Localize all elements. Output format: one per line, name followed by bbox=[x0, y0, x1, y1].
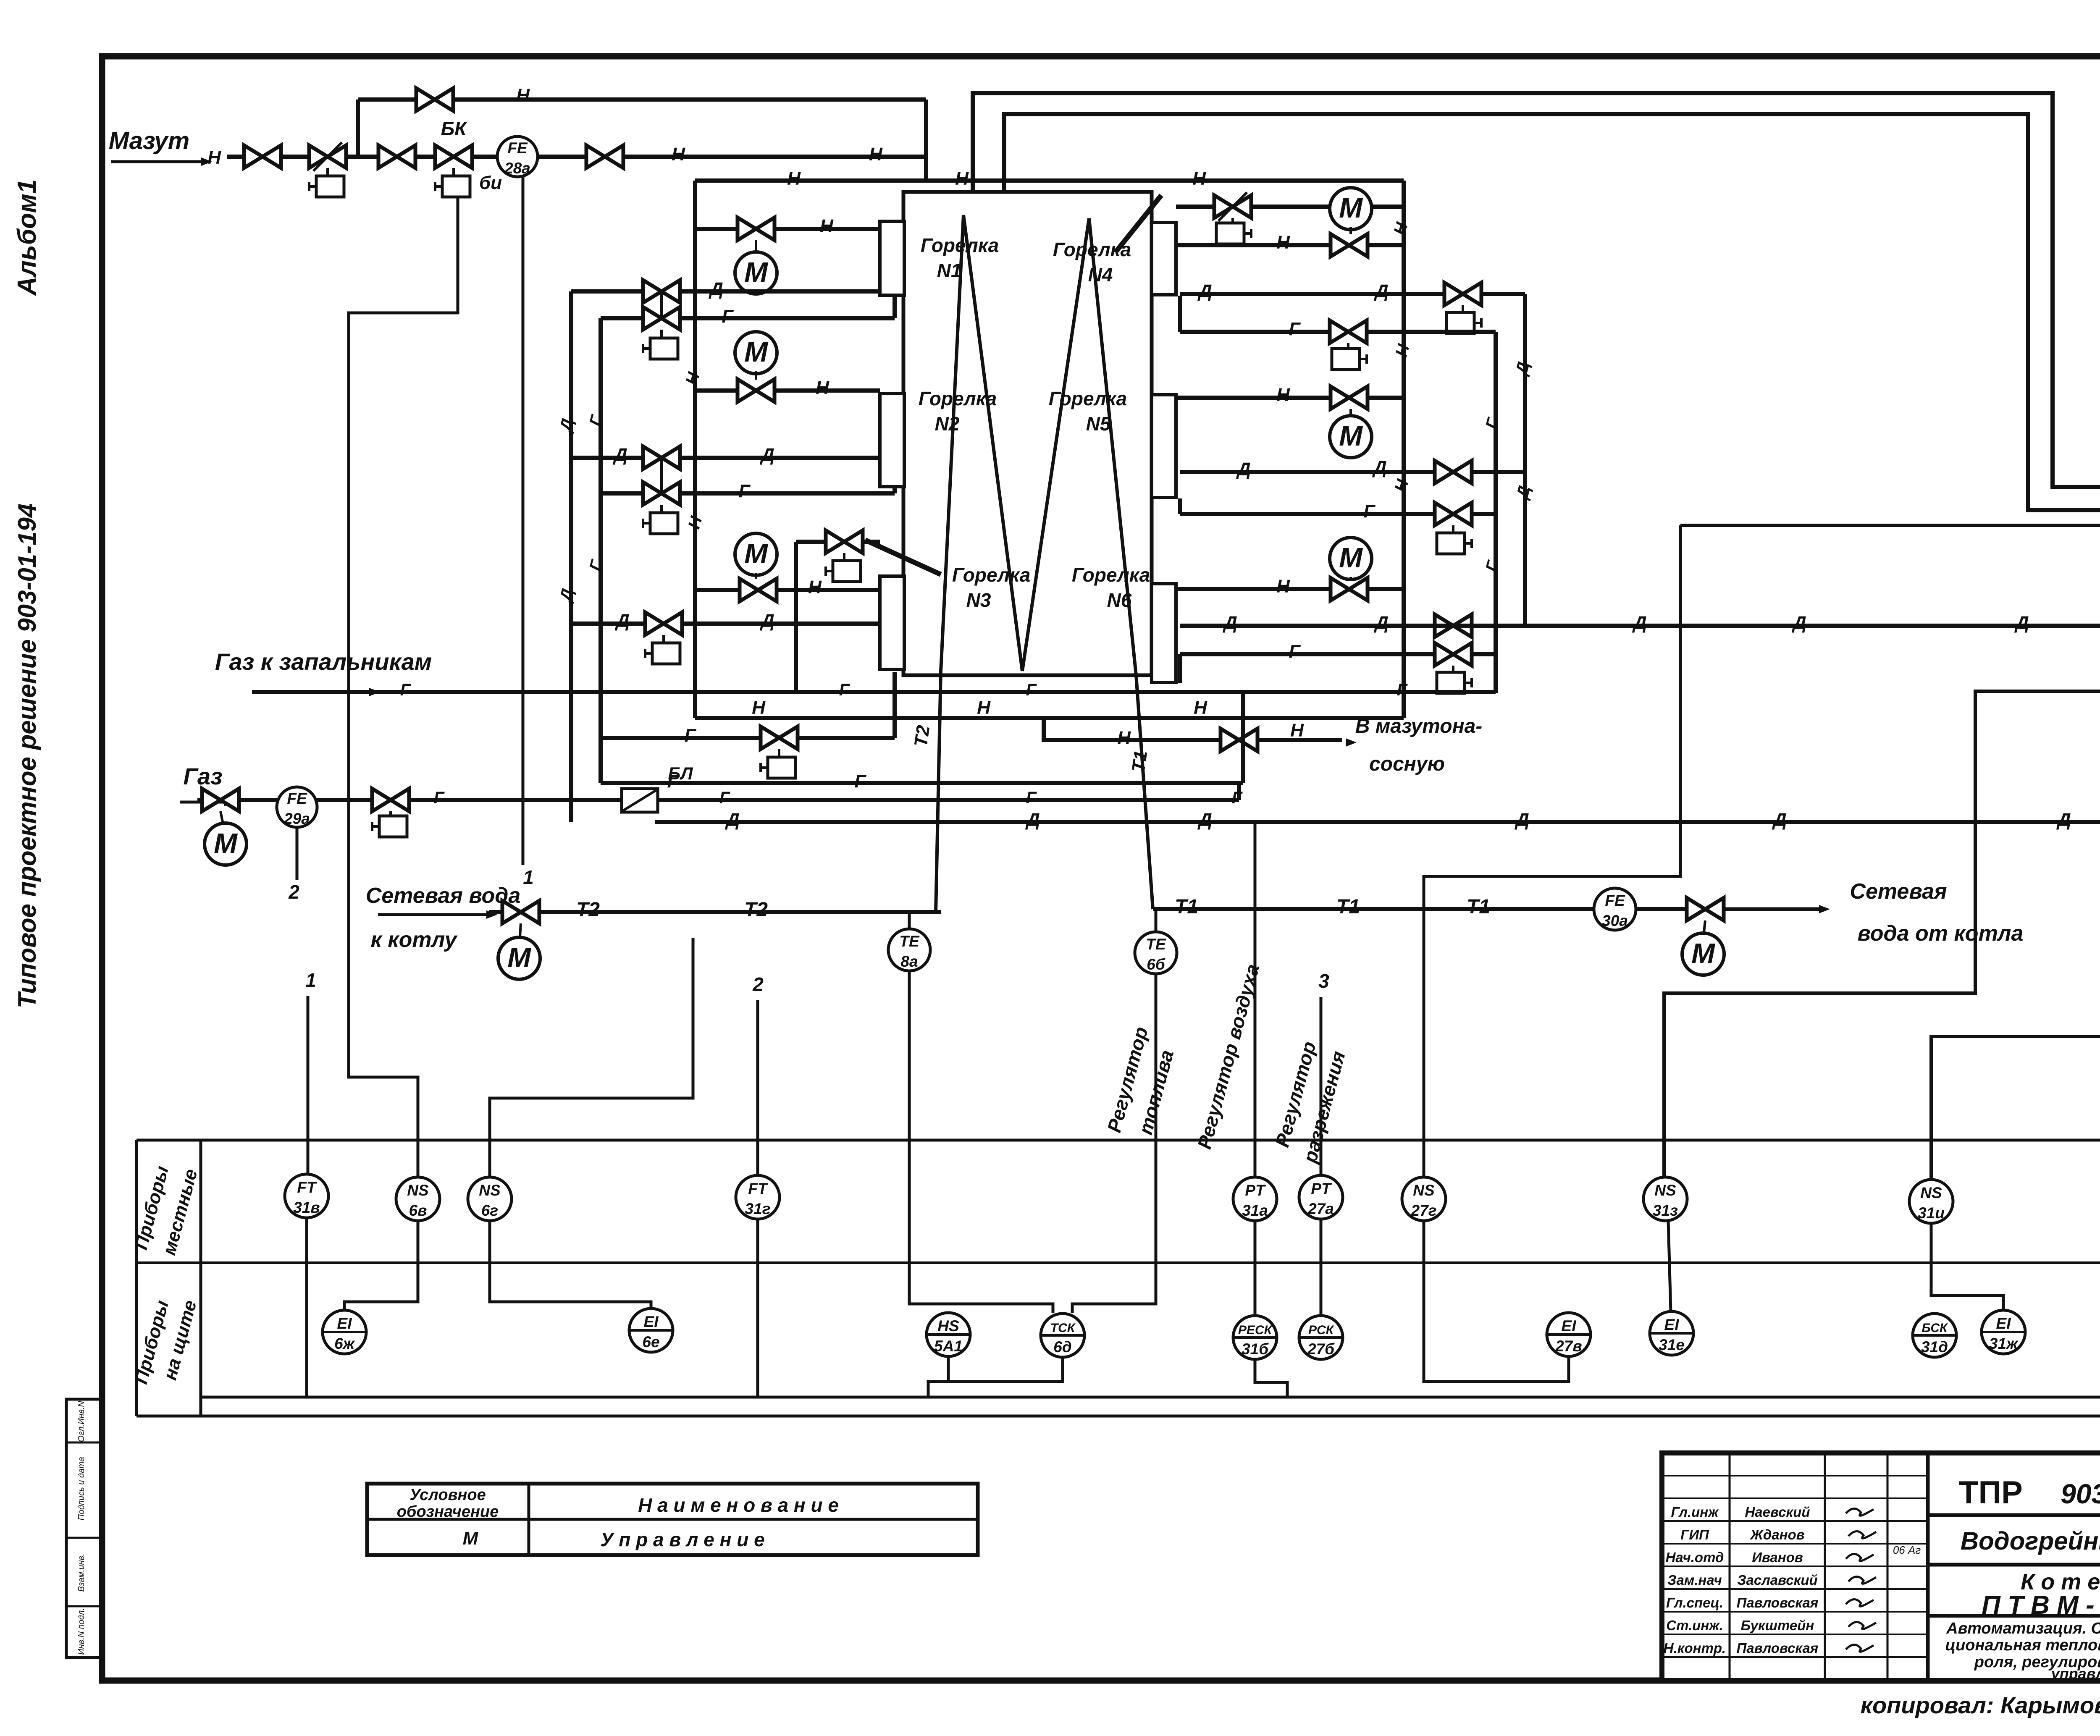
svg-text:Горелка: Горелка bbox=[1072, 564, 1150, 586]
svg-text:31е: 31е bbox=[1659, 1336, 1685, 1353]
wire: Н line to oil pump room bbox=[695, 716, 1404, 720]
valve БК bbox=[435, 145, 472, 168]
svg-text:Д: Д bbox=[1632, 613, 1647, 633]
svg-text:М: М bbox=[463, 1528, 479, 1549]
svg-text:6е: 6е bbox=[642, 1333, 659, 1351]
igniter gas feed arrow bbox=[252, 691, 375, 694]
svg-text:Д: Д bbox=[2056, 810, 2071, 830]
svg-text:2: 2 bbox=[752, 973, 764, 995]
svg-text:N3: N3 bbox=[966, 589, 991, 611]
motor M of T2 valve bbox=[520, 923, 521, 936]
valve burner6 Д on fan line bbox=[1435, 614, 1472, 637]
svg-text:Н: Н bbox=[1276, 576, 1290, 597]
svg-text:Водогрейные котлы типа ПТВМ: Водогрейные котлы типа ПТВМ bbox=[1961, 1527, 2100, 1555]
svg-text:Д: Д bbox=[759, 611, 774, 631]
wire: burner5 Д row bbox=[1180, 470, 1525, 474]
svg-text:РЕСК: РЕСК bbox=[1238, 1323, 1273, 1337]
svg-text:ЕI: ЕI bbox=[1996, 1315, 2011, 1332]
svg-text:NS: NS bbox=[407, 1182, 429, 1199]
wire: igniter branch burner3 bbox=[796, 540, 880, 544]
valve on gas main bbox=[202, 789, 239, 811]
instrument band inner bottom line bbox=[201, 1396, 2100, 1399]
legend table row divider bbox=[367, 1518, 978, 1521]
wire: NS 31з to ЕI 31е bbox=[1668, 1221, 1671, 1311]
svg-text:Н: Н bbox=[816, 378, 829, 398]
svg-text:Огл.Инв.N: Огл.Инв.N bbox=[77, 1401, 86, 1442]
temperature element ТЕ 6б bbox=[1155, 909, 1158, 932]
actuator box of closed mazut valve bbox=[326, 168, 329, 176]
svg-text:Газ к запальникам: Газ к запальникам bbox=[215, 648, 432, 675]
svg-text:N4: N4 bbox=[1088, 264, 1113, 286]
svg-text:Н: Н bbox=[820, 216, 834, 236]
wire: Г branch lower-left bbox=[601, 736, 895, 740]
svg-text:Г: Г bbox=[854, 771, 866, 792]
svg-text:FE: FE bbox=[507, 139, 528, 157]
wire: air duct Д to fan N2 bbox=[655, 820, 2100, 824]
wire: gas main riser to manifold bbox=[1237, 783, 1241, 800]
svg-text:N6: N6 bbox=[1107, 589, 1132, 611]
svg-text:Г: Г bbox=[719, 789, 731, 807]
wire: ТСК 6д exit bbox=[928, 1357, 1063, 1397]
svg-text:FE: FE bbox=[1605, 892, 1625, 909]
svg-text:2: 2 bbox=[288, 881, 299, 903]
svg-text:Нач.отд: Нач.отд bbox=[1666, 1550, 1724, 1565]
svg-text:N1: N1 bbox=[937, 260, 962, 281]
svg-text:Д: Д bbox=[1197, 281, 1212, 302]
twin valve stem burner1 bbox=[660, 291, 663, 318]
svg-text:FT: FT bbox=[297, 1179, 318, 1196]
wire: air duct Д to fan N1 bbox=[1180, 624, 2100, 628]
wire: left Г feeder column bbox=[598, 318, 603, 783]
valve burner6 Н bbox=[1331, 578, 1368, 601]
svg-text:Г: Г bbox=[667, 771, 679, 792]
svg-text:Г: Г bbox=[1289, 319, 1301, 339]
wire: burner6 Г row bbox=[1180, 652, 1496, 656]
valve burner4 Н bbox=[1331, 234, 1368, 257]
svg-text:Регулятор воздуха: Регулятор воздуха bbox=[1193, 962, 1264, 1151]
svg-text:Т2: Т2 bbox=[576, 899, 600, 921]
svg-text:ГИП: ГИП bbox=[1680, 1527, 1709, 1542]
svg-text:06 Аг: 06 Аг bbox=[1893, 1544, 1921, 1556]
svg-text:NS: NS bbox=[1920, 1184, 1942, 1201]
svg-text:Н.контр.: Н.контр. bbox=[1664, 1640, 1726, 1656]
wire: би signal bbox=[349, 197, 458, 1177]
wire: burner4 Г row bbox=[1180, 330, 1496, 334]
svg-text:Г: Г bbox=[722, 306, 734, 327]
svg-text:NS: NS bbox=[1413, 1182, 1435, 1199]
actuator of burner1 Г valve bbox=[660, 330, 663, 338]
svg-text:31д: 31д bbox=[1921, 1338, 1948, 1356]
instrument PT 27а bbox=[1299, 1175, 1343, 1219]
valve burner2 Г bbox=[643, 482, 680, 505]
svg-text:PT: PT bbox=[1311, 1180, 1332, 1197]
actuator of burner6 Г valve bbox=[1452, 666, 1454, 673]
instrument РСК 27б bbox=[1299, 1316, 1343, 1359]
svg-text:Г: Г bbox=[684, 725, 696, 746]
callout line to burner N3 bbox=[865, 540, 941, 574]
svg-text:ТСК: ТСК bbox=[1050, 1321, 1076, 1335]
svg-text:M: M bbox=[507, 942, 531, 973]
valve (closed) on mazut line bbox=[309, 142, 346, 171]
wire: left Д feeder column bbox=[569, 291, 573, 822]
svg-text:Г: Г bbox=[839, 681, 850, 699]
svg-text:Д: Д bbox=[1772, 810, 1787, 830]
svg-text:Т2: Т2 bbox=[911, 724, 934, 748]
wire: NS 6г to ЕI 6е bbox=[490, 1221, 651, 1309]
svg-text:Г: Г bbox=[1289, 641, 1301, 662]
svg-text:Н: Н bbox=[685, 514, 706, 531]
actuator of Г branch valve bbox=[778, 749, 780, 758]
wire: NS 6г feed bbox=[490, 938, 693, 1177]
wire: burner2 Г row bbox=[601, 491, 895, 496]
svg-text:Н: Н bbox=[1390, 220, 1411, 237]
actuator of burner5 Г valve bbox=[1452, 525, 1454, 533]
valve on mazut bypass bbox=[416, 88, 453, 111]
instrument HS 5А1 bbox=[927, 1313, 970, 1356]
svg-text:Д: Д bbox=[1791, 613, 1806, 633]
motor M of gas main valve bbox=[205, 823, 247, 865]
valve burner5 Г bbox=[1435, 503, 1472, 525]
svg-text:1: 1 bbox=[305, 969, 316, 991]
wire: burner6 Н row bbox=[1176, 587, 1404, 591]
svg-text:6г: 6г bbox=[481, 1202, 498, 1219]
wire: igniter gas line bbox=[252, 690, 1496, 694]
svg-text:FT: FT bbox=[748, 1180, 769, 1197]
svg-text:У п р а в л е н и е: У п р а в л е н и е bbox=[600, 1529, 764, 1550]
actuator of burner4 Г valve bbox=[1347, 343, 1349, 349]
svg-text:1: 1 bbox=[523, 866, 534, 888]
actuator box би of valve БК bbox=[452, 168, 455, 176]
wire: burner5 Н row bbox=[1176, 396, 1404, 400]
svg-text:управления: управления bbox=[2050, 1665, 2100, 1682]
svg-text:M: M bbox=[744, 538, 768, 569]
svg-text:Д: Д bbox=[1372, 457, 1387, 478]
water feed arrow bbox=[378, 913, 492, 916]
svg-text:Д: Д bbox=[1236, 459, 1251, 480]
svg-text:Горелка: Горелка bbox=[952, 564, 1030, 586]
svg-text:циональная теплового конт-: циональная теплового конт- bbox=[1945, 1636, 2100, 1654]
svg-text:Ст.инж.: Ст.инж. bbox=[1666, 1618, 1723, 1633]
svg-text:Н: Н bbox=[1276, 385, 1290, 405]
svg-text:Г: Г bbox=[400, 681, 412, 699]
wire: burner3 Н row bbox=[695, 588, 880, 592]
svg-text:Г: Г bbox=[586, 412, 606, 428]
instrument band left edge bbox=[135, 1140, 138, 1416]
svg-text:31з: 31з bbox=[1653, 1202, 1678, 1219]
instrument NS 31з bbox=[1643, 1177, 1687, 1221]
instrument ТСК 6д bbox=[1041, 1314, 1084, 1357]
valve on gas main 2 bbox=[372, 789, 409, 811]
wire: PT 27а to РСК 27б bbox=[1320, 1219, 1323, 1316]
svg-text:Гл.спец.: Гл.спец. bbox=[1666, 1595, 1723, 1610]
twin valve stem burner2 bbox=[660, 458, 663, 493]
svg-text:Горелка: Горелка bbox=[919, 388, 997, 409]
svg-text:Мазут: Мазут bbox=[109, 127, 190, 155]
wire: burner2 Д row bbox=[571, 456, 884, 460]
svg-text:3: 3 bbox=[1318, 970, 1329, 992]
svg-text:Условное: Условное bbox=[409, 1486, 486, 1504]
motor M burner2 bbox=[735, 332, 777, 374]
valve igniter burner3 bbox=[826, 530, 863, 553]
motor M burner3 bbox=[735, 533, 777, 575]
wire: burner3 Д row bbox=[571, 621, 884, 626]
svg-text:Инв.N подл.: Инв.N подл. bbox=[77, 1608, 86, 1655]
motor M burner5 bbox=[1330, 416, 1372, 458]
svg-text:31а: 31а bbox=[1242, 1202, 1268, 1219]
title block outline bbox=[1662, 1453, 2100, 1681]
svg-text:Г: Г bbox=[1026, 681, 1037, 699]
svg-text:HS: HS bbox=[937, 1317, 959, 1335]
svg-text:M: M bbox=[1339, 420, 1363, 452]
svg-text:копировал: Карымова: копировал: Карымова bbox=[1861, 1692, 2100, 1718]
title divider 1 bbox=[1928, 1513, 2100, 1517]
wire: PT 31а to РЕСК 31б bbox=[1254, 1221, 1257, 1316]
svg-text:Т1: Т1 bbox=[1175, 896, 1198, 918]
svg-text:6б: 6б bbox=[1147, 956, 1165, 973]
svg-text:БСК: БСК bbox=[1922, 1321, 1949, 1335]
instrument band row divider bbox=[136, 1261, 2100, 1264]
svg-text:Павловская: Павловская bbox=[1737, 1640, 1819, 1656]
svg-text:Подпись и дата: Подпись и дата bbox=[77, 1457, 86, 1520]
svg-text:Т1: Т1 bbox=[1467, 896, 1490, 918]
svg-text:к котлу: к котлу bbox=[370, 928, 458, 952]
svg-text:сосную: сосную bbox=[1369, 753, 1445, 775]
wire: mazut main line bbox=[227, 155, 926, 159]
svg-text:вода от котла: вода от котла bbox=[1858, 921, 2024, 946]
svg-text:27г: 27г bbox=[1411, 1202, 1437, 1219]
mazut feed arrow bbox=[111, 160, 208, 163]
svg-text:Н: Н bbox=[1192, 168, 1206, 189]
svg-text:6ж: 6ж bbox=[334, 1335, 355, 1352]
instrument РЕСК 31б bbox=[1233, 1316, 1277, 1359]
svg-text:Наевский: Наевский bbox=[1745, 1504, 1810, 1520]
wire: РЕСК 31б exit bbox=[1255, 1359, 1287, 1397]
actuator of burner4 Д valve bbox=[1462, 305, 1464, 313]
svg-text:Заславский: Заславский bbox=[1737, 1572, 1817, 1588]
svg-text:Альбом1: Альбом1 bbox=[13, 179, 42, 296]
wire: right Г column bbox=[1494, 332, 1498, 693]
svg-text:Н: Н bbox=[672, 144, 685, 165]
instrument ЕI 31е bbox=[1650, 1311, 1693, 1355]
valve burner5 Д bbox=[1435, 461, 1472, 483]
svg-text:Д: Д bbox=[1373, 281, 1389, 302]
instrument ЕI 6е bbox=[629, 1309, 673, 1352]
svg-text:Г: Г bbox=[1397, 681, 1408, 699]
svg-text:6д: 6д bbox=[1053, 1338, 1071, 1356]
wire: top-right purge line bbox=[1176, 205, 1404, 209]
valve (closed) top-right purge bbox=[1214, 192, 1251, 221]
motor M burner1 bbox=[735, 252, 777, 294]
left stamp strip bbox=[66, 1399, 103, 1657]
wire: T2 water line bbox=[489, 910, 941, 914]
instrument NS 27г bbox=[1402, 1177, 1446, 1221]
instrument band top line bbox=[136, 1139, 2100, 1142]
instrument band outer bottom line bbox=[136, 1415, 2100, 1418]
svg-text:Г: Г bbox=[1026, 789, 1037, 807]
svg-text:ТПР: ТПР bbox=[1959, 1475, 2023, 1510]
flow element FE 30а bbox=[1594, 888, 1636, 930]
svg-text:28а: 28а bbox=[504, 160, 530, 177]
svg-text:Н: Н bbox=[1392, 342, 1413, 359]
svg-text:8а: 8а bbox=[900, 953, 918, 970]
svg-text:ТЕ: ТЕ bbox=[1146, 936, 1166, 953]
svg-text:Горелка: Горелка bbox=[921, 234, 999, 256]
wire: right Н column bbox=[1402, 181, 1406, 718]
svg-text:Н: Н bbox=[752, 698, 766, 718]
instrument NS 6г bbox=[468, 1177, 512, 1221]
flow element FE 28а bbox=[497, 136, 538, 177]
actuator of igniter valve bbox=[843, 553, 845, 561]
motor M of T1 valve bbox=[1704, 920, 1705, 932]
valve burner6 Г bbox=[1435, 643, 1472, 666]
svg-text:Букштейн: Букштейн bbox=[1741, 1618, 1814, 1633]
title divider 3 bbox=[1928, 1614, 2100, 1618]
wire: gas main line bbox=[197, 798, 1239, 802]
wire: air regulator line bbox=[1254, 822, 1257, 1177]
svg-text:Д: Д bbox=[1222, 613, 1237, 633]
svg-text:Сетевая: Сетевая bbox=[1850, 879, 1947, 904]
signature table col 1 bbox=[1729, 1453, 1731, 1681]
svg-text:Д: Д bbox=[1512, 360, 1533, 378]
svg-text:ЕI: ЕI bbox=[1664, 1316, 1680, 1333]
svg-text:обозначение: обозначение bbox=[397, 1503, 499, 1521]
svg-text:Н: Н bbox=[1391, 477, 1412, 494]
svg-text:Н: Н bbox=[869, 144, 883, 165]
svg-text:FE: FE bbox=[287, 790, 307, 807]
furnace flame line right bbox=[1022, 218, 1089, 671]
wire: burner1 Г row bbox=[601, 316, 895, 320]
svg-text:31г: 31г bbox=[745, 1200, 771, 1217]
burner box N2 bbox=[880, 393, 904, 487]
wire: ТЕ 6б signal bbox=[1072, 974, 1156, 1313]
valve burner4 Д bbox=[1444, 283, 1481, 305]
valve on mazut line bbox=[244, 145, 281, 168]
svg-text:PT: PT bbox=[1245, 1182, 1266, 1199]
valve burner1 Г bbox=[643, 307, 680, 330]
svg-text:Д: Д bbox=[759, 445, 774, 465]
svg-text:РСК: РСК bbox=[1308, 1323, 1335, 1337]
svg-text:Н: Н bbox=[977, 698, 991, 718]
wire: burner4 Н row bbox=[1176, 243, 1404, 247]
wire: fan1 control line bbox=[1664, 691, 2100, 1177]
valve burner2 Н bbox=[738, 379, 774, 402]
svg-text:N2: N2 bbox=[935, 413, 960, 435]
svg-text:Д: Д bbox=[1373, 613, 1389, 633]
instrument band label column divider bbox=[199, 1140, 202, 1416]
svg-text:Н: Н bbox=[1290, 720, 1304, 741]
instrument ЕI 31ж bbox=[1982, 1310, 2025, 1354]
wire: mazut bypass line bbox=[358, 97, 926, 102]
valve on T1 line bbox=[1687, 898, 1724, 920]
instrument NS 31и bbox=[1909, 1180, 1953, 1223]
svg-text:Автоматизация. Схема функ-: Автоматизация. Схема функ- bbox=[1946, 1620, 2100, 1637]
valve burner3 Н bbox=[740, 579, 777, 601]
wire: burner1 Н row bbox=[695, 227, 880, 231]
svg-text:Павловская: Павловская bbox=[1737, 1595, 1819, 1610]
svg-text:M: M bbox=[744, 336, 768, 368]
svg-text:Г: Г bbox=[1482, 415, 1503, 431]
svg-text:Д: Д bbox=[1025, 810, 1040, 830]
valve burner1 Д bbox=[643, 280, 680, 303]
instrument БСК 31д bbox=[1913, 1314, 1956, 1357]
svg-text:Н: Н bbox=[682, 370, 703, 387]
actuator of burner2 Г valve bbox=[660, 505, 663, 513]
svg-text:31ж: 31ж bbox=[1989, 1335, 2019, 1352]
burner box N1 bbox=[880, 221, 904, 295]
svg-text:Г: Г bbox=[1482, 558, 1503, 574]
svg-text:6в: 6в bbox=[409, 1202, 427, 1219]
svg-text:27а: 27а bbox=[1307, 1200, 1334, 1217]
wire: signal to FT 31г bbox=[756, 1000, 759, 1175]
svg-text:Н: Н bbox=[1276, 232, 1290, 253]
wire: ТЕ 8а signal bbox=[909, 971, 1053, 1313]
svg-text:Д: Д bbox=[612, 445, 627, 465]
actuator of gas valve 2 bbox=[389, 811, 392, 816]
wire: FE 29а signal down bbox=[296, 827, 299, 880]
flow element FE 29а bbox=[277, 787, 317, 827]
svg-text:ЕI: ЕI bbox=[644, 1313, 659, 1330]
svg-text:Иванов: Иванов bbox=[1752, 1550, 1803, 1565]
wire: signal to FT 31в bbox=[307, 996, 310, 1174]
svg-text:Г: Г bbox=[738, 481, 751, 501]
pipe T2 through furnace bbox=[936, 215, 963, 912]
burner box N4 bbox=[1152, 223, 1176, 295]
svg-text:Типовое проектное решение 9: Типовое проектное решение 903-01-194 bbox=[13, 503, 41, 1008]
wire: FT 31г down bbox=[756, 1219, 759, 1397]
valve on pumphouse branch bbox=[1221, 729, 1257, 751]
flow regulator БЛ bbox=[622, 789, 658, 812]
wire: burner4 Д row bbox=[1180, 292, 1525, 296]
instrument FT 31в bbox=[285, 1174, 328, 1218]
svg-text:30а: 30а bbox=[1602, 912, 1628, 929]
valve on mazut line 3 bbox=[586, 145, 623, 168]
svg-text:ТЕ: ТЕ bbox=[899, 933, 920, 950]
signature table rows bbox=[1662, 1475, 1928, 1476]
valve burner1 Н bbox=[738, 218, 774, 240]
svg-text:Д: Д bbox=[614, 611, 630, 631]
wire: Г lower header bbox=[601, 781, 1243, 785]
instrument FT 31г bbox=[736, 1175, 780, 1219]
svg-text:Т1: Т1 bbox=[1336, 896, 1360, 918]
wire: NS 27г to ЕI 27в bbox=[1424, 1221, 1569, 1382]
wire: exhauster control riser bbox=[1679, 525, 1682, 627]
legend table box bbox=[367, 1484, 978, 1555]
actuator of burner3 Д valve bbox=[662, 635, 665, 643]
svg-text:Н: Н bbox=[1194, 698, 1207, 718]
svg-text:ЕI: ЕI bbox=[337, 1315, 352, 1332]
svg-text:M: M bbox=[1339, 192, 1363, 224]
svg-text:Т2: Т2 bbox=[744, 899, 768, 921]
svg-text:903-01-194: 903-01-194 bbox=[2061, 1478, 2100, 1509]
svg-text:N5: N5 bbox=[1086, 413, 1111, 435]
signature table col 3 bbox=[1887, 1453, 1889, 1681]
valve burner4 Г bbox=[1330, 320, 1367, 343]
wire: right Д column bbox=[1523, 294, 1527, 626]
burner box N6 bbox=[1152, 584, 1176, 682]
temperature element ТЕ 8а bbox=[908, 912, 911, 929]
valve burner5 Н bbox=[1331, 386, 1368, 409]
valve burner2 Д bbox=[643, 446, 680, 469]
svg-text:Д: Д bbox=[708, 279, 723, 299]
furnace flame line left bbox=[963, 215, 1022, 671]
title divider 2 bbox=[1928, 1563, 2100, 1567]
wire: FT 31в down bbox=[305, 1218, 308, 1397]
svg-text:31в: 31в bbox=[293, 1199, 320, 1216]
svg-text:Гл.инж: Гл.инж bbox=[1671, 1504, 1719, 1520]
wire: fan2 control line bbox=[1931, 904, 2100, 1180]
boiler furnace outline bbox=[903, 192, 1152, 675]
valve burner3 Д bbox=[645, 612, 682, 635]
